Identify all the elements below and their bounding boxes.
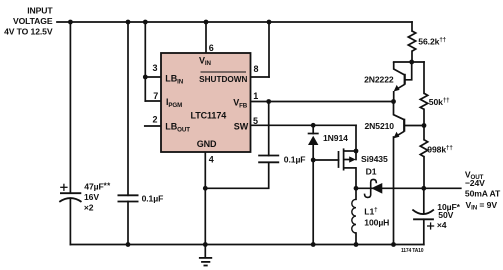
- transistor Q1 2N2222: [394, 62, 412, 102]
- node rail pin6: [204, 20, 209, 25]
- wire SW line pin5: [251, 124, 357, 126]
- svg-text:3: 3: [153, 63, 158, 73]
- node rail pin8: [267, 20, 272, 25]
- wire 0.1uF input drop x128: [127, 22, 129, 195]
- wire 50k bottom lead: [423, 109, 425, 125]
- wire SW down to mosfet source: [355, 125, 357, 159]
- svg-text:SHUTDOWN: SHUTDOWN: [199, 75, 247, 84]
- svg-text:2N2222: 2N2222: [364, 75, 394, 85]
- svg-text:100µH: 100µH: [364, 217, 389, 227]
- label INPUT VOLTAGE: [4, 6, 53, 37]
- wire pin 7 stub: [145, 100, 162, 102]
- svg-text:×2: ×2: [84, 203, 94, 213]
- wire gate lead: [313, 159, 338, 161]
- node rail pin4: [203, 242, 208, 247]
- wire Vout line: [356, 187, 461, 189]
- capacitor C4 10uF plates: [412, 210, 434, 220]
- wire 56.2k bottom lead: [411, 51, 413, 62]
- svg-text:6: 6: [209, 43, 214, 53]
- svg-text:2N5210: 2N5210: [364, 121, 394, 131]
- svg-text:SW: SW: [234, 121, 249, 131]
- wire pin 2 stub: [145, 125, 162, 127]
- capacitor C3 0.1uF VFB plates: [258, 156, 279, 163]
- wire pin 3 stub: [145, 76, 162, 78]
- svg-text:VIN = 9V: VIN = 9V: [466, 200, 498, 212]
- node rail L1: [354, 242, 359, 247]
- wire input cap drop x70: [69, 22, 71, 193]
- wire 10uF bottom lead: [423, 219, 425, 244]
- capacitor C1 47uF plates: [59, 193, 81, 202]
- svg-text:1: 1: [253, 91, 258, 101]
- node SW 1N914 junction: [311, 123, 316, 128]
- svg-text:5: 5: [253, 116, 258, 126]
- wire L1 bottom lead: [355, 233, 357, 245]
- wire node A horizontal: [394, 61, 424, 63]
- wire GND pin4 drop: [204, 152, 206, 245]
- transistor Q1 emitter arrow: [394, 85, 400, 92]
- wire gate to ground: [312, 160, 314, 245]
- transistor Q2 2N5210: [394, 102, 425, 136]
- resistor R3 998k: [420, 140, 427, 157]
- ground: [199, 245, 212, 266]
- node Vout 998k 10uF: [421, 186, 426, 191]
- wire 1N914 anode lead: [312, 145, 314, 160]
- svg-text:LTC1174: LTC1174: [191, 110, 227, 120]
- svg-text:×4: ×4: [437, 220, 447, 230]
- svg-text:VOLTAGE: VOLTAGE: [13, 16, 53, 26]
- node drain L1 D1: [354, 186, 359, 191]
- wire top rail: [57, 21, 412, 23]
- wire mosfet drain down: [355, 168, 357, 188]
- svg-text:1174 TA10: 1174 TA10: [401, 248, 424, 254]
- wire pin3/pin7 feed: [144, 22, 146, 101]
- diode D2 1N914: [308, 134, 319, 146]
- wire L1 top lead: [355, 188, 357, 199]
- wire 47uF bottom lead: [69, 199, 71, 245]
- node gate junction: [311, 158, 316, 163]
- svg-text:D1: D1: [366, 167, 377, 177]
- svg-text:−24V: −24V: [465, 178, 485, 188]
- svg-text:16V: 16V: [84, 192, 99, 202]
- label VOUT block: [465, 169, 501, 211]
- node A 56.2k bottom: [409, 60, 414, 65]
- svg-text:47µF**: 47µF**: [84, 182, 111, 192]
- wire Q2 emitter down to rail: [393, 137, 395, 245]
- wire pin 8 riser: [268, 22, 270, 77]
- op-amp style IC U1 LTC1174 body: [161, 53, 251, 152]
- wire 998k bottom lead: [423, 157, 425, 189]
- wire VFB bypass cap top lead: [268, 102, 270, 156]
- wire 0.1uF input bottom lead: [127, 202, 129, 245]
- node mosfet source body: [354, 149, 359, 154]
- svg-text:2: 2: [153, 114, 158, 124]
- capacitor C1 47uF plus sign: [60, 184, 67, 191]
- diode D1 schottky: [365, 179, 383, 197]
- wire 1N914 top lead: [312, 125, 314, 133]
- label SHUTDOWN pin name: [199, 72, 247, 84]
- node input junction: [68, 20, 73, 25]
- svg-text:0.1µF: 0.1µF: [284, 154, 306, 164]
- transistor M1 body arrow: [349, 156, 356, 162]
- capacitor C4 plus sign: [427, 222, 434, 229]
- node GND cap return: [203, 186, 208, 191]
- svg-text:1N914: 1N914: [323, 133, 348, 143]
- wire pin 6 drop: [205, 22, 207, 53]
- wire 10uF top lead: [423, 188, 425, 213]
- node rail gate: [311, 242, 316, 247]
- node rail Q2 emitter: [391, 242, 396, 247]
- node VFB right junction: [391, 99, 396, 104]
- inductor L1 coil: [352, 199, 356, 233]
- svg-text:50mA AT: 50mA AT: [465, 189, 501, 199]
- svg-text:4: 4: [209, 154, 214, 164]
- wire 998k top lead: [423, 126, 425, 140]
- svg-text:GND: GND: [197, 139, 217, 149]
- wire pin 8 stub: [251, 76, 270, 78]
- wire bottom rail: [70, 244, 423, 246]
- wire VFB bypass cap bottom lead: [205, 162, 268, 188]
- svg-text:INPUT: INPUT: [27, 6, 53, 16]
- resistor R1 56.2k: [408, 31, 415, 51]
- transistor Q2 emitter arrow: [393, 132, 399, 139]
- wire 56.2k top lead from rail: [411, 22, 413, 31]
- wire VFB line pin1: [251, 101, 394, 103]
- resistor R2 50k: [420, 93, 427, 109]
- svg-text:4V TO 12.5V: 4V TO 12.5V: [4, 26, 53, 36]
- capacitor C2 0.1uF input plates: [118, 195, 139, 201]
- node dots: [68, 20, 426, 247]
- wire 50k top lead: [423, 62, 425, 93]
- svg-text:8: 8: [254, 64, 259, 74]
- transistor M1 Si9435 mosfet: [339, 148, 357, 170]
- node rail 0.1uF bottom: [126, 242, 131, 247]
- node rail 0.1uF: [126, 20, 131, 25]
- svg-text:0.1µF: 0.1µF: [142, 193, 164, 203]
- svg-text:7: 7: [153, 91, 158, 101]
- node pin3 junction: [143, 75, 148, 80]
- node rail pin3 feed: [143, 20, 148, 25]
- node VFB cap junction: [266, 99, 271, 104]
- svg-text:50V: 50V: [438, 210, 453, 220]
- svg-text:Si9435: Si9435: [361, 154, 388, 164]
- node Q2 base 50k 998k: [422, 123, 427, 128]
